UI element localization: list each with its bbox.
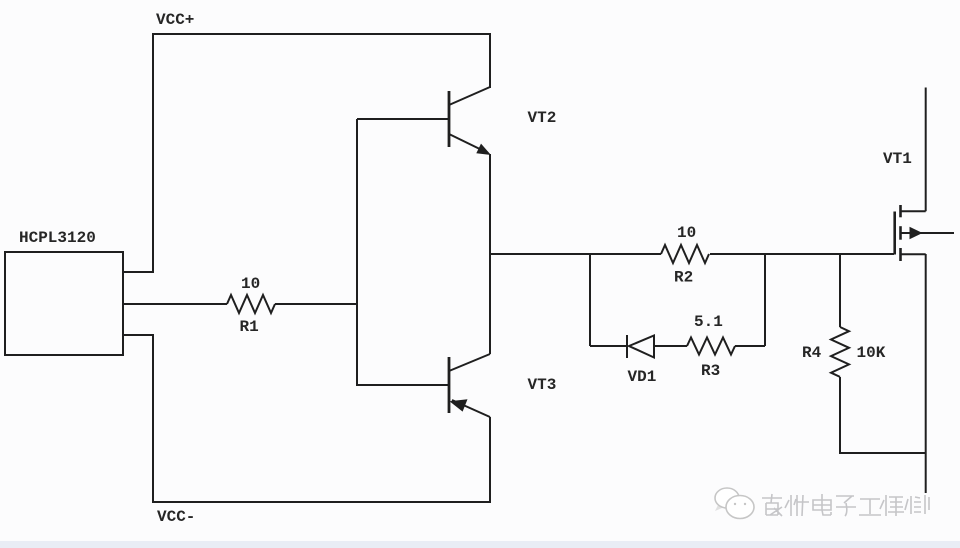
- svg-text:10: 10: [677, 224, 696, 242]
- transistor VT1 body channel tick: [899, 226, 902, 240]
- wire R4 top vertical: [839, 254, 841, 327]
- wire VT1 drain horizontal: [901, 210, 926, 212]
- wire HCPL3120 pin stub to VCC+: [123, 271, 154, 273]
- wire branch to diode VD1: [590, 345, 627, 347]
- svg-text:R1: R1: [240, 318, 259, 336]
- wire VT2 collector vertical: [489, 33, 491, 88]
- transistor VT2 emitter arrow: [476, 144, 491, 155]
- transistor VT3 lower diagonal with arrow: [452, 400, 490, 417]
- wire VT1 source horizontal: [901, 253, 926, 255]
- wire VT1 body lead: [901, 232, 955, 234]
- wire R1 to base bus: [275, 303, 357, 305]
- transistor VT1 body arrow: [910, 227, 923, 240]
- wire base bus vertical: [356, 119, 358, 386]
- IC U1 HCPL3120 box: [5, 252, 123, 355]
- svg-text:R4: R4: [802, 344, 822, 362]
- wire VD1 to R3: [654, 345, 687, 347]
- wire VT1 source vertical: [925, 254, 927, 493]
- svg-text:VCC+: VCC+: [156, 11, 194, 29]
- transistor VT2 emitter diagonal: [449, 134, 488, 153]
- wire VCC- bottom rail: [153, 501, 491, 503]
- resistor R1 zigzag: [227, 295, 275, 313]
- svg-text:VD1: VD1: [628, 368, 657, 386]
- wire VT1 drain vertical: [925, 88, 927, 212]
- wire VT3 lower vertical to VCC- rail: [489, 417, 491, 503]
- transistor VT1 gate bar: [893, 212, 896, 255]
- wire VT3 base: [357, 384, 448, 386]
- svg-text:R3: R3: [701, 362, 720, 380]
- wire R4 bottom vertical: [839, 377, 841, 454]
- wire VCC- left vertical: [152, 335, 154, 503]
- wire VCC+ left vertical: [152, 33, 154, 272]
- wire HCPL3120 pin stub to VCC-: [123, 334, 154, 336]
- wire R2 left branch vertical: [589, 254, 591, 346]
- resistor R2 zigzag: [661, 245, 709, 263]
- transistor VT3 emitter arrow: [450, 399, 468, 411]
- wire HCPL3120 output pin to R1: [123, 303, 227, 305]
- transistor VT2 collector diagonal: [449, 87, 490, 105]
- svg-text:VT2: VT2: [528, 109, 557, 127]
- wire VT3 upper vertical from output node: [489, 254, 491, 354]
- diode VD1 cathode bar: [626, 335, 628, 358]
- transistor VT3 upper diagonal: [449, 354, 490, 371]
- resistor R3 zigzag: [687, 338, 735, 355]
- wire R2 to gate: [710, 253, 894, 255]
- wire R4 bottom horizontal to source: [840, 452, 926, 454]
- wire VT2 base: [357, 118, 448, 120]
- watermark wechat logo: [715, 488, 754, 519]
- transistor VT3 base bar: [448, 357, 451, 413]
- svg-text:10: 10: [241, 275, 260, 293]
- diode VD1 triangle: [629, 336, 654, 358]
- wire R3 to right branch: [735, 345, 765, 347]
- wire output horizontal to R2: [490, 253, 661, 255]
- watermark text 硬件电子工程师: [762, 494, 929, 516]
- transistor VT2 base bar: [448, 91, 451, 147]
- svg-text:10K: 10K: [857, 344, 886, 362]
- svg-text:VCC-: VCC-: [157, 508, 195, 526]
- transistor VT1 drain channel tick: [899, 205, 902, 217]
- svg-text:R2: R2: [674, 269, 693, 287]
- bottom tint band: [0, 541, 960, 548]
- resistor R4 vertical zigzag: [831, 327, 849, 377]
- svg-text:VT3: VT3: [528, 376, 557, 394]
- svg-text:5.1: 5.1: [694, 313, 723, 331]
- wire VT2 emitter vertical to output node: [489, 154, 491, 255]
- svg-text:HCPL3120: HCPL3120: [19, 229, 96, 247]
- transistor VT1 source channel tick: [899, 248, 902, 261]
- wire VCC+ top rail: [153, 33, 491, 35]
- wire right branch vertical: [764, 254, 766, 346]
- svg-text:VT1: VT1: [883, 150, 912, 168]
